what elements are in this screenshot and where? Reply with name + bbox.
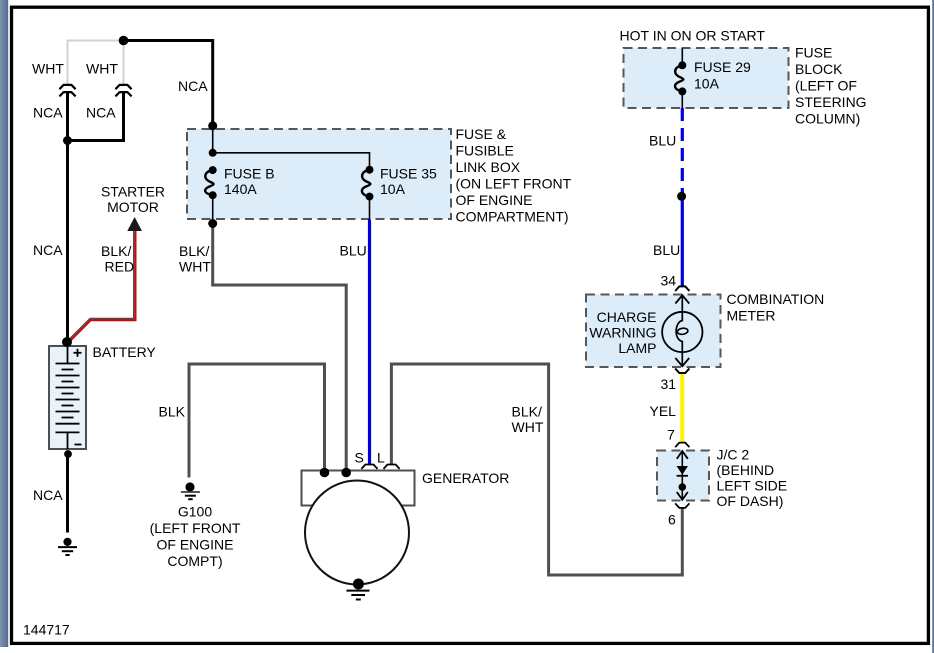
svg-text:BLK: BLK (159, 404, 186, 420)
svg-text:COLUMN): COLUMN) (795, 111, 860, 127)
svg-text:WHT: WHT (179, 259, 211, 275)
svg-text:BLU: BLU (653, 242, 680, 258)
svg-text:34: 34 (661, 273, 677, 289)
svg-text:OF DASH): OF DASH) (717, 493, 784, 509)
svg-text:S: S (355, 450, 364, 466)
svg-text:METER: METER (727, 308, 776, 324)
svg-text:STEERING: STEERING (795, 94, 867, 110)
svg-text:BLK/: BLK/ (101, 243, 131, 259)
svg-text:MOTOR: MOTOR (107, 199, 159, 215)
svg-text:HOT IN ON OR START: HOT IN ON OR START (620, 28, 766, 44)
svg-text:NCA: NCA (33, 242, 63, 258)
svg-text:NCA: NCA (33, 487, 63, 503)
svg-text:FUSE B: FUSE B (224, 166, 275, 182)
svg-text:WHT: WHT (512, 419, 544, 435)
svg-text:FUSE 35: FUSE 35 (380, 166, 437, 182)
svg-text:7: 7 (667, 427, 675, 443)
svg-text:LEFT SIDE: LEFT SIDE (717, 478, 788, 494)
svg-text:BLU: BLU (340, 243, 367, 259)
svg-text:BLK/: BLK/ (179, 243, 209, 259)
svg-text:NCA: NCA (178, 78, 208, 94)
svg-text:LAMP: LAMP (618, 340, 656, 356)
svg-text:COMPARTMENT): COMPARTMENT) (456, 209, 569, 225)
svg-text:10A: 10A (380, 181, 406, 197)
svg-text:6: 6 (668, 512, 676, 528)
svg-text:(LEFT OF: (LEFT OF (795, 78, 857, 94)
svg-text:FUSIBLE: FUSIBLE (456, 143, 514, 159)
svg-text:10A: 10A (694, 76, 720, 92)
svg-text:STARTER: STARTER (101, 184, 165, 200)
svg-text:G100: G100 (178, 504, 212, 520)
svg-text:31: 31 (661, 376, 677, 392)
svg-text:WHT: WHT (32, 61, 64, 77)
svg-text:(BEHIND: (BEHIND (717, 462, 775, 478)
svg-text:L: L (377, 450, 385, 466)
svg-text:COMPT): COMPT) (167, 553, 222, 569)
svg-text:NCA: NCA (33, 105, 63, 121)
svg-text:(ON LEFT FRONT: (ON LEFT FRONT (456, 176, 572, 192)
svg-text:(LEFT FRONT: (LEFT FRONT (150, 520, 241, 536)
svg-text:OF ENGINE: OF ENGINE (456, 192, 533, 208)
svg-text:144717: 144717 (23, 622, 70, 638)
svg-text:YEL: YEL (650, 403, 677, 419)
svg-text:140A: 140A (224, 181, 257, 197)
svg-text:BLK/: BLK/ (512, 404, 542, 420)
svg-text:CHARGE: CHARGE (597, 309, 657, 325)
svg-text:LINK BOX: LINK BOX (456, 159, 521, 175)
svg-text:WARNING: WARNING (589, 325, 656, 341)
svg-text:COMBINATION: COMBINATION (727, 291, 825, 307)
svg-text:GENERATOR: GENERATOR (422, 470, 509, 486)
svg-text:WHT: WHT (86, 61, 118, 77)
svg-text:BATTERY: BATTERY (93, 344, 157, 360)
svg-text:BLOCK: BLOCK (795, 61, 843, 77)
svg-text:NCA: NCA (86, 105, 116, 121)
svg-text:J/C 2: J/C 2 (717, 447, 750, 463)
svg-text:FUSE &: FUSE & (456, 126, 507, 142)
svg-text:FUSE 29: FUSE 29 (694, 59, 751, 75)
svg-text:RED: RED (105, 259, 135, 275)
svg-text:FUSE: FUSE (795, 45, 832, 61)
svg-text:BLU: BLU (649, 133, 676, 149)
svg-text:OF ENGINE: OF ENGINE (156, 537, 233, 553)
